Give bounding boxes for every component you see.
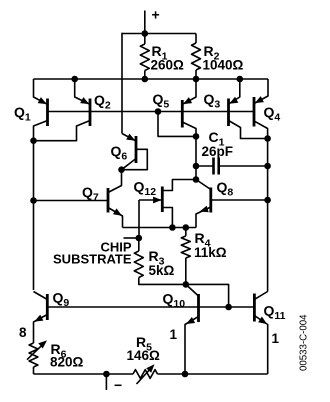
wire R4 node to lower base line [186, 284, 229, 307]
middle emitter bus (Q7-Q12-R4-Q8) [123, 227, 197, 229]
wire Q12 emitter down to substrate node [138, 200, 140, 238]
svg-text:820Ω: 820Ω [50, 355, 84, 370]
node: Q1/Q2 collector junction [30, 137, 37, 144]
transistor Q1 [14, 79, 48, 141]
node: Q2 emitter on upper bus [71, 76, 78, 83]
- supply terminal [106, 374, 122, 393]
svg-text:+: + [152, 7, 160, 23]
chip substrate stub [53, 238, 139, 267]
emitter ratio label 8 [19, 325, 27, 340]
node: R3/R4/Q10 collector junction [183, 281, 190, 288]
bottom rail left segment [34, 373, 134, 375]
transistor Q7 [34, 170, 123, 228]
resistor R3 [134, 238, 186, 284]
figure number 00533-C-004 [299, 314, 310, 371]
emitter ratio label 1 (Q10) [170, 327, 178, 342]
svg-text:5kΩ: 5kΩ [149, 263, 175, 278]
node: Q3 emitter on upper bus [237, 76, 244, 83]
resistor R1 [140, 34, 184, 80]
transistor Q11 [254, 292, 285, 375]
node: R1 bottom on upper bus [142, 76, 149, 83]
transistor Q5 [153, 79, 197, 180]
transistor Q6 [111, 134, 148, 170]
node: top supply junction [142, 30, 149, 37]
node: R2 bottom on upper bus [193, 76, 200, 83]
node: tap joins Q5 collector [193, 133, 200, 140]
resistor R6 (trimmed) [27, 340, 84, 374]
svg-text:−: − [114, 377, 122, 393]
base bus wire (Q1-Q5 bases) [48, 111, 255, 113]
resistor R2 [192, 34, 244, 80]
node: Q5/Q12/Q8 junction [193, 176, 200, 183]
node: Q12 base on emitter bus [169, 224, 176, 231]
transistor Q12 [134, 179, 197, 228]
node: Q8 base to right bus [264, 197, 271, 204]
svg-text:8: 8 [19, 325, 27, 340]
node: C1 left plate junction [193, 163, 200, 170]
wire from top node down to Q6 emitter [121, 33, 123, 134]
resistor R4 [181, 228, 226, 285]
capacitor C1 [196, 129, 268, 175]
node: minus terminal junction [103, 371, 110, 378]
upper horizontal bus [34, 78, 269, 80]
emitter ratio label 1 (Q11) [272, 331, 280, 346]
svg-text:00533-C-004: 00533-C-004 [299, 314, 310, 371]
transistor Q3 [204, 79, 268, 139]
wire base-tap down and over to Q5 collector [158, 112, 196, 137]
svg-text:260Ω: 260Ω [151, 58, 185, 73]
node: Q10 emitter on rail [182, 371, 189, 378]
node: Q6 collector/base to Q7 collector [118, 166, 125, 173]
node: Q7 base to left vertical [30, 197, 37, 204]
resistor R5 (trimmed) [127, 334, 161, 384]
node: base bus tap to Q5 collector [155, 108, 162, 115]
bottom rail right segment [158, 373, 268, 375]
right vertical wire (Q3/Q4 collectors to Q11 collector) [267, 139, 269, 292]
svg-text:146Ω: 146Ω [127, 348, 161, 363]
node: lower base line tap [225, 304, 232, 311]
svg-text:1: 1 [272, 331, 280, 346]
node: substrate tap [136, 235, 143, 242]
svg-text:1040Ω: 1040Ω [203, 58, 244, 73]
svg-text:26pF: 26pF [202, 144, 234, 159]
svg-text:SUBSTRATE: SUBSTRATE [53, 252, 132, 267]
node: C1 right plate junction [264, 163, 271, 170]
node: Q3/Q4 collector junction [264, 135, 271, 142]
svg-text:1: 1 [170, 327, 178, 342]
+ supply terminal [145, 7, 160, 34]
top node wire [122, 33, 196, 35]
transistor Q9 [34, 290, 70, 343]
transistor Q10 [163, 284, 199, 374]
transistor Q2 [34, 79, 111, 141]
transistor Q8 [196, 179, 268, 228]
left vertical wire (Q1 collector node down to Q9) [33, 141, 35, 290]
svg-text:11kΩ: 11kΩ [194, 245, 227, 260]
node: R4 top on emitter bus [183, 224, 190, 231]
lower base line (Q9-Q10-Q11 bases) [47, 306, 254, 308]
transistor Q4 [254, 79, 280, 139]
